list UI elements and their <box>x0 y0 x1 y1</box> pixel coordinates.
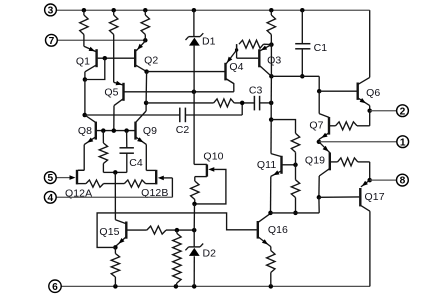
svg-text:C4: C4 <box>129 157 143 169</box>
svg-text:Q9: Q9 <box>143 125 157 137</box>
svg-text:Q19: Q19 <box>305 154 325 166</box>
svg-text:D2: D2 <box>202 248 216 260</box>
svg-text:Q1: Q1 <box>76 56 90 68</box>
svg-text:7: 7 <box>49 36 55 47</box>
svg-text:Q17: Q17 <box>365 191 385 203</box>
svg-text:Q3: Q3 <box>267 54 281 66</box>
svg-text:Q5: Q5 <box>104 87 118 99</box>
svg-text:Q4: Q4 <box>229 61 243 73</box>
svg-text:C1: C1 <box>314 42 328 54</box>
svg-text:C3: C3 <box>249 85 263 97</box>
svg-text:Q2: Q2 <box>144 54 158 66</box>
svg-text:D1: D1 <box>202 36 216 48</box>
svg-text:2: 2 <box>400 106 406 117</box>
svg-text:Q7: Q7 <box>309 119 323 131</box>
svg-text:C2: C2 <box>176 124 190 136</box>
svg-text:Q16: Q16 <box>268 224 288 236</box>
svg-text:Q10: Q10 <box>203 150 223 162</box>
svg-text:1: 1 <box>400 137 406 148</box>
svg-text:4: 4 <box>47 193 53 204</box>
svg-text:5: 5 <box>47 173 53 184</box>
svg-text:Q11: Q11 <box>257 159 276 171</box>
svg-text:3: 3 <box>48 6 54 17</box>
svg-text:Q8: Q8 <box>78 125 92 137</box>
svg-text:Q15: Q15 <box>99 226 119 238</box>
svg-text:Q6: Q6 <box>366 87 380 99</box>
svg-text:8: 8 <box>400 176 406 187</box>
svg-text:6: 6 <box>52 282 58 293</box>
